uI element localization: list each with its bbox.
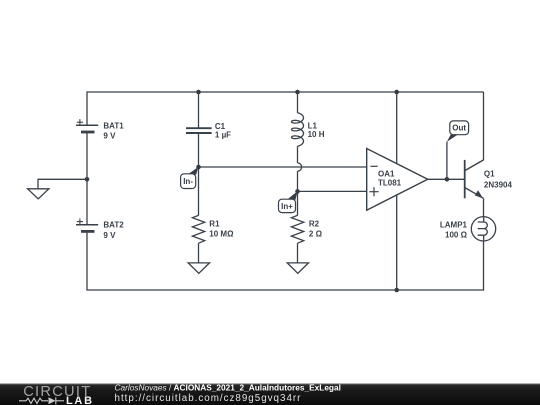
svg-text:BAT1: BAT1 [103, 121, 124, 130]
node junction dots [85, 90, 450, 293]
op-amp U1 triangle [367, 149, 428, 211]
battery BAT1 [76, 119, 98, 132]
svg-text:10 H: 10 H [308, 130, 325, 139]
ground for R1 [188, 263, 209, 273]
svg-text:LAMP1: LAMP1 [440, 221, 468, 230]
wire top rail [87, 92, 484, 125]
op-amp minus sign [371, 165, 378, 167]
wire hop over In- rail [298, 163, 302, 171]
svg-text:TL081: TL081 [378, 179, 402, 188]
svg-text:OA1: OA1 [378, 170, 395, 179]
wire battery mid [86, 132, 88, 225]
svg-text:http://circuitlab.com/cz89g5gv: http://circuitlab.com/cz89g5gvq34rr [115, 393, 302, 404]
svg-text:Q1: Q1 [484, 170, 495, 179]
svg-text:R2: R2 [309, 220, 320, 229]
transistor Q1 [465, 160, 484, 199]
wire ground stub left [38, 179, 87, 189]
svg-text:2 Ω: 2 Ω [309, 230, 323, 239]
resistor R2 [291, 215, 303, 243]
svg-text:9 V: 9 V [103, 231, 116, 240]
svg-text:1 µF: 1 µF [215, 130, 231, 139]
wire Out label tail [446, 142, 448, 180]
resistor R1 [192, 215, 204, 243]
wire op-amp output to base [428, 178, 465, 180]
wire R1 to ground [198, 243, 200, 263]
wire In+ rail [298, 190, 367, 192]
node In+ flag [279, 191, 298, 212]
svg-text:CarlosNovaes / ACIONAS_2021_2_: CarlosNovaes / ACIONAS_2021_2_AulaInduto… [115, 383, 341, 393]
battery BAT2 [76, 219, 98, 232]
wire In- rail [199, 166, 367, 168]
wire op-amp V- pin [396, 194, 398, 290]
op-amp plus sign [369, 187, 378, 196]
ground left [28, 189, 49, 199]
wire L1 bottom to hop [297, 146, 299, 163]
svg-text:100 Ω: 100 Ω [445, 230, 468, 239]
ground for R2 [287, 263, 308, 273]
wire R2 to ground [297, 243, 299, 263]
capacitor C1 [186, 128, 212, 133]
svg-text:R1: R1 [209, 220, 220, 229]
node Out flag [447, 121, 469, 142]
svg-text:Out: Out [452, 124, 466, 133]
svg-text:9 V: 9 V [103, 132, 116, 141]
node In- flag [181, 167, 199, 189]
labels [103, 121, 512, 240]
svg-text:In-: In- [183, 177, 193, 186]
svg-text:LAB: LAB [66, 395, 94, 405]
svg-text:10 MΩ: 10 MΩ [209, 230, 234, 239]
wire C1 to In- node [198, 133, 200, 216]
wire L1 top [297, 92, 299, 113]
logo resistor-diode glyph [19, 397, 64, 404]
wire emitter drop [483, 198, 485, 216]
svg-text:In+: In+ [281, 202, 293, 211]
svg-text:2N3904: 2N3904 [484, 180, 513, 189]
lamp LAMP1 [471, 217, 495, 241]
wire op-amp V+ pin [396, 92, 398, 165]
wire hop to In+ node [297, 171, 299, 216]
wire collector drop [465, 92, 484, 171]
svg-text:BAT2: BAT2 [103, 221, 124, 230]
wire C1 branch top [198, 92, 200, 128]
wire bottom rail [87, 231, 484, 290]
inductor L1 [292, 113, 304, 146]
